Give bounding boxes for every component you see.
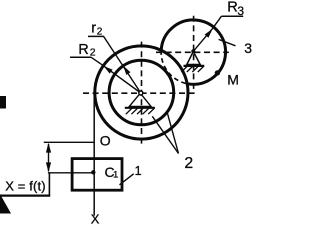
- dimension double arrow: [48, 144, 50, 171]
- label 1 leader: [120, 174, 134, 185]
- wheel 3 outline R3: [161, 20, 225, 84]
- svg-text:2: 2: [90, 47, 96, 59]
- label 2 leader to outer circle: [167, 112, 178, 153]
- centerline dashed horizontal pulley 2: [83, 92, 195, 94]
- svg-text:1: 1: [113, 169, 118, 179]
- dimension bottom tick: [48, 172, 94, 174]
- svg-text:3: 3: [244, 40, 252, 56]
- svg-text:3: 3: [237, 4, 244, 18]
- C1 center dot: [91, 170, 95, 174]
- svg-text:O: O: [100, 132, 111, 148]
- block C1: [72, 159, 122, 191]
- R2 leader slant: [91, 57, 102, 65]
- pulley 2 inner circle r2: [109, 60, 174, 125]
- svg-text:M: M: [227, 71, 239, 87]
- svg-text:1: 1: [135, 164, 142, 178]
- pin support of wheel 3: hatching: [181, 66, 203, 72]
- r2 radius arrowhead: [123, 66, 130, 75]
- pin support of wheel 3: base line: [184, 65, 205, 67]
- label 3 leader: [219, 39, 236, 45]
- R3 radius line: [193, 29, 212, 52]
- centerline dashed vertical pulley 2: [141, 42, 143, 146]
- scan mark bottom left: [0, 194, 11, 214]
- svg-text:R: R: [227, 0, 238, 16]
- rope / X axis line: [93, 94, 95, 216]
- pin of wheel 3: [191, 49, 195, 53]
- R3 leader slant: [212, 16, 221, 29]
- svg-text:2: 2: [184, 155, 193, 172]
- svg-text:X = f(t): X = f(t): [5, 178, 46, 193]
- pin support of pulley 2: base line: [125, 107, 155, 109]
- R3 radius arrowhead: [205, 29, 213, 38]
- svg-text:2: 2: [97, 27, 103, 38]
- centerline dashed horizontal wheel 3: [156, 51, 229, 53]
- pin support of pulley 2: triangle: [129, 93, 151, 106]
- centerline dashed vertical wheel 3: [193, 16, 195, 89]
- svg-text:X: X: [91, 212, 100, 225]
- label 2 leader to inner circle: [152, 116, 178, 153]
- X=f(t) label underline: [0, 194, 50, 196]
- X=f(t) leader vertical: [48, 173, 50, 196]
- R2 radius arrowhead: [104, 66, 113, 74]
- svg-text:R: R: [78, 42, 88, 58]
- r2 leader line to center: [104, 36, 141, 93]
- wheel 3 hidden arc (dashed, behind pulley 2): [161, 50, 187, 83]
- pin of pulley 2: [139, 91, 143, 95]
- R2 label underline: [70, 56, 91, 58]
- R2 radius line to center: [102, 65, 141, 93]
- scan mark left edge: [0, 96, 6, 109]
- pin support of wheel 3: triangle: [187, 52, 200, 65]
- svg-text:r: r: [91, 20, 96, 36]
- R3 label underline: [222, 15, 244, 17]
- dimension top tick: [44, 141, 94, 143]
- point M: [215, 70, 220, 75]
- r2 label underline: [88, 35, 104, 37]
- pin support of pulley 2: hatching: [126, 108, 154, 114]
- pulley 2 outer circle R2: [95, 46, 188, 139]
